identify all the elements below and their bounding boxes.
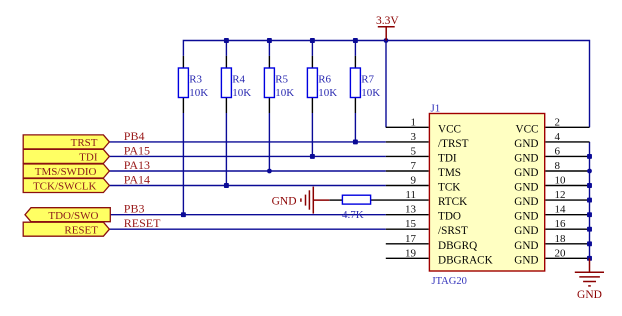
svg-text:VCC: VCC [515,123,538,135]
svg-text:VCC: VCC [438,123,461,135]
svg-text:GND: GND [514,240,538,252]
svg-text:GND: GND [514,225,538,237]
svg-text:GND: GND [514,167,538,179]
svg-text:R5: R5 [275,74,288,86]
svg-text:PA14: PA14 [124,172,150,186]
svg-text:9: 9 [411,175,417,187]
svg-text:14: 14 [555,204,567,216]
svg-text:TMS/SWDIO: TMS/SWDIO [35,166,97,178]
svg-text:5: 5 [411,145,417,157]
svg-text:10K: 10K [189,87,208,99]
svg-text:GND: GND [514,196,538,208]
svg-text:PA15: PA15 [124,143,150,157]
svg-text:4: 4 [555,131,561,143]
svg-text:GND: GND [514,211,538,223]
svg-text:1: 1 [411,116,417,128]
svg-text:7: 7 [411,160,417,172]
svg-text:TDI: TDI [438,152,457,164]
svg-text:J1: J1 [431,103,441,115]
svg-text:JTAG20: JTAG20 [432,276,467,287]
svg-text:TCK: TCK [438,182,460,194]
svg-text:TMS: TMS [438,167,461,179]
svg-text:RESET: RESET [124,216,161,230]
svg-text:6: 6 [555,145,561,157]
svg-text:12: 12 [555,189,566,201]
svg-text:PB4: PB4 [124,129,145,143]
svg-text:R6: R6 [318,74,331,86]
svg-text:10: 10 [555,175,567,187]
svg-text:/TRST: /TRST [438,138,469,150]
svg-text:3: 3 [411,131,417,143]
svg-text:TCK/SWCLK: TCK/SWCLK [33,181,97,193]
svg-text:20: 20 [555,247,567,259]
svg-text:GND: GND [514,254,538,266]
svg-text:10K: 10K [318,87,337,99]
svg-text:R7: R7 [361,74,374,86]
svg-text:10K: 10K [232,87,251,99]
svg-text:R4: R4 [232,74,245,86]
svg-text:TRST: TRST [71,137,98,149]
svg-text:TDO: TDO [438,211,461,223]
svg-text:R3: R3 [189,74,202,86]
svg-text:GND: GND [577,289,602,301]
svg-text:3.3V: 3.3V [376,15,399,27]
svg-text:11: 11 [405,189,416,201]
svg-text:GND: GND [514,182,538,194]
svg-text:DBGRQ: DBGRQ [438,240,477,252]
svg-text:GND: GND [514,152,538,164]
svg-text:4.7K: 4.7K [342,209,364,221]
svg-text:TDO/SWO: TDO/SWO [48,210,98,222]
svg-text:TDI: TDI [79,152,98,164]
svg-text:2: 2 [555,116,561,128]
svg-text:18: 18 [555,233,567,245]
svg-text:15: 15 [405,218,417,230]
svg-text:GND: GND [514,138,538,150]
svg-text:PA13: PA13 [124,158,150,172]
svg-text:GND: GND [272,196,297,208]
svg-text:PB3: PB3 [124,202,145,216]
svg-text:16: 16 [555,218,567,230]
svg-text:RTCK: RTCK [438,196,467,208]
svg-text:/SRST: /SRST [438,225,468,237]
svg-text:19: 19 [405,247,417,259]
svg-text:10K: 10K [361,87,380,99]
svg-text:RESET: RESET [64,224,98,236]
svg-text:10K: 10K [275,87,294,99]
svg-text:17: 17 [405,233,417,245]
svg-text:DBGRACK: DBGRACK [438,254,493,266]
svg-text:13: 13 [405,204,417,216]
svg-text:8: 8 [555,160,561,172]
